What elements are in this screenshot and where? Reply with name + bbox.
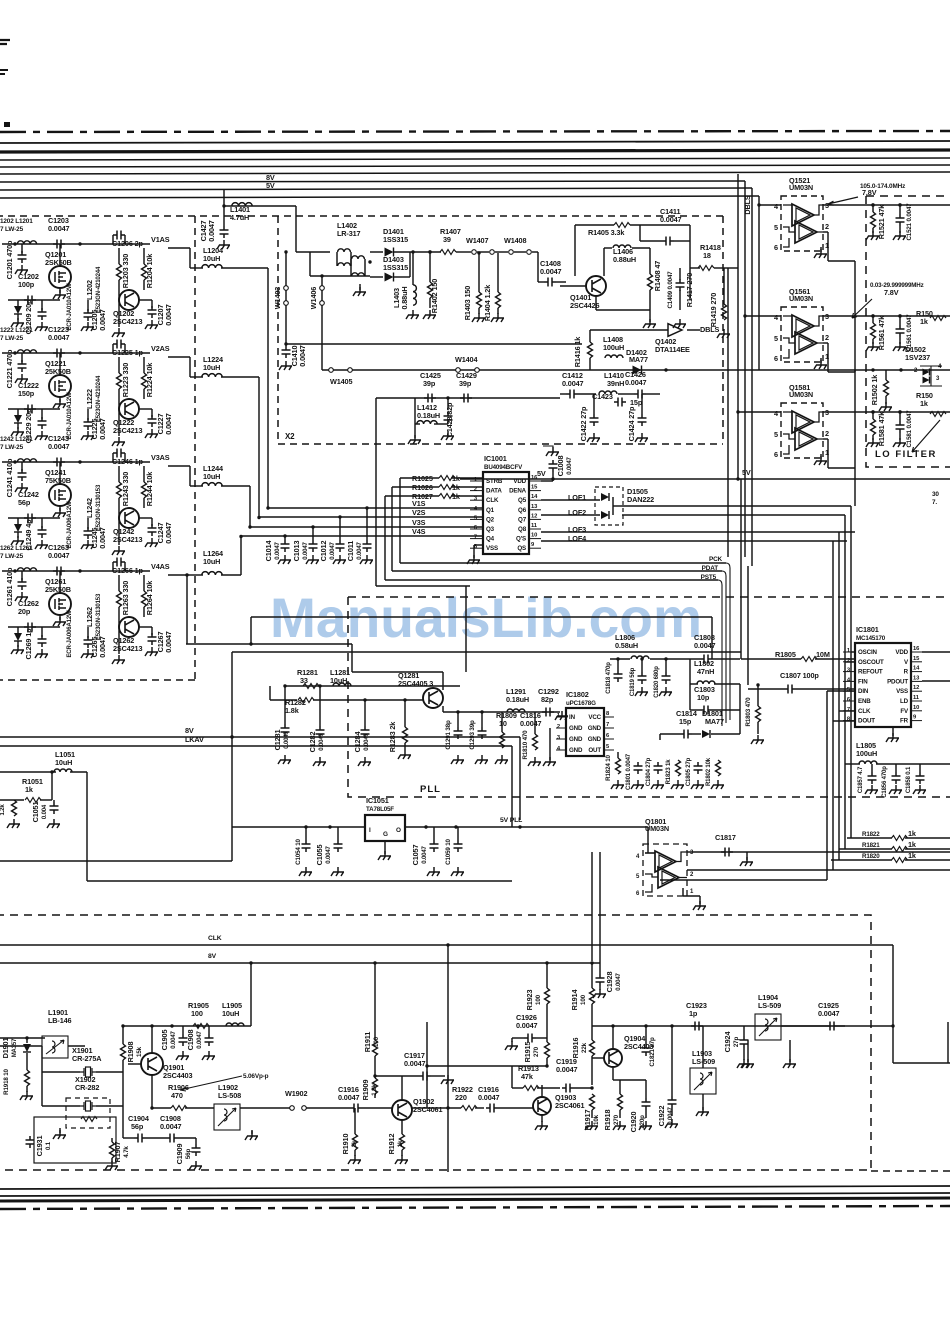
- svg-text:C1920: C1920: [629, 1112, 638, 1133]
- wire horizontal R1418 to bus: [727, 268, 729, 557]
- wire bottom bus line 3 (thick): [0, 1198, 950, 1201]
- svg-text:Q7: Q7: [518, 516, 527, 523]
- svg-text:12: 12: [531, 513, 537, 519]
- ground: [279, 361, 292, 370]
- svg-text:V4S: V4S: [412, 527, 426, 536]
- wire long horizontal through watermark: [251, 616, 712, 618]
- ground: [360, 555, 373, 564]
- diode left MA358: [14, 415, 22, 423]
- svg-text:5: 5: [606, 744, 610, 750]
- svg-text:R1802 10k: R1802 10k: [706, 757, 712, 786]
- wire 8V drop 1: [250, 963, 252, 1026]
- svg-text:10uH: 10uH: [203, 363, 220, 372]
- svg-text:GND: GND: [588, 725, 602, 732]
- svg-text:W1405: W1405: [330, 377, 352, 386]
- dashed box X2 left edge: [277, 216, 279, 444]
- svg-text:15k: 15k: [136, 1046, 143, 1057]
- svg-text:GND: GND: [569, 736, 583, 743]
- svg-text:0.0047: 0.0047: [616, 972, 622, 990]
- svg-text:VDD: VDD: [895, 649, 908, 656]
- transistor Q1401 2SC4426: [586, 276, 606, 296]
- wire LOF2 to bus: [622, 514, 845, 516]
- ground: [15, 483, 28, 492]
- svg-text:13: 13: [913, 675, 920, 681]
- ground under Q2: [112, 437, 125, 446]
- ground: [451, 867, 464, 876]
- svg-text:20p: 20p: [18, 607, 31, 616]
- svg-text:C1819 56p: C1819 56p: [630, 667, 636, 696]
- svg-text:LD: LD: [900, 698, 909, 705]
- svg-text:IC1001: IC1001: [484, 454, 507, 463]
- dashed box crystal: [66, 1098, 110, 1128]
- svg-text:Q'S: Q'S: [516, 536, 526, 543]
- mark left edge 2: [0, 70, 8, 74]
- svg-text:R: R: [904, 669, 909, 676]
- svg-text:C1856 470p: C1856 470p: [882, 766, 888, 798]
- grounds under L1805 row: [865, 785, 878, 794]
- wire row input: [2, 570, 150, 572]
- svg-text:Q6: Q6: [518, 507, 527, 514]
- svg-text:0.0047: 0.0047: [48, 224, 70, 233]
- svg-text:CR-282: CR-282: [75, 1083, 99, 1092]
- svg-text:14: 14: [531, 494, 538, 500]
- svg-text:0.0047: 0.0047: [562, 379, 584, 388]
- svg-text:2SC4405 3: 2SC4405 3: [398, 679, 433, 688]
- svg-text:E523GN-4210244: E523GN-4210244: [96, 266, 102, 313]
- svg-text:LKAV: LKAV: [185, 735, 204, 744]
- transistor Q1242 2SC4213: [119, 508, 139, 528]
- svg-text:DIN: DIN: [858, 688, 869, 695]
- svg-text:1222 L1221: 1222 L1221: [0, 327, 33, 334]
- ground: [495, 755, 508, 764]
- svg-text:14: 14: [913, 666, 920, 672]
- wire transformer leads: [309, 252, 311, 276]
- svg-text:C1011: C1011: [346, 541, 355, 561]
- svg-text:100uH: 100uH: [603, 343, 624, 352]
- svg-text:10p: 10p: [697, 693, 710, 702]
- wire V2AS: [168, 356, 190, 358]
- ground: [696, 1107, 709, 1116]
- svg-text:I: I: [369, 827, 371, 834]
- svg-text:R1263 330: R1263 330: [121, 581, 130, 615]
- svg-text:4: 4: [774, 313, 779, 322]
- svg-text:2: 2: [825, 429, 829, 438]
- svg-text:3: 3: [474, 496, 478, 502]
- svg-text:PDOUT: PDOUT: [887, 678, 908, 685]
- svg-text:C1424 27p: C1424 27p: [627, 406, 636, 441]
- svg-text:39nH: 39nH: [607, 379, 624, 388]
- svg-text:2SC4061: 2SC4061: [555, 1101, 584, 1110]
- ground: [11, 536, 24, 545]
- svg-text:R1521 47k: R1521 47k: [877, 204, 886, 239]
- wire C1425 row loop down: [375, 398, 377, 586]
- svg-text:100: 100: [535, 994, 542, 1005]
- svg-text:0.0047: 0.0047: [330, 541, 336, 559]
- wire top bus line 1: [0, 141, 950, 143]
- wire DATA loop down: [391, 487, 393, 571]
- svg-text:2: 2: [914, 368, 918, 374]
- svg-text:7.: 7.: [932, 499, 937, 506]
- svg-text:R1916: R1916: [571, 1038, 580, 1059]
- svg-text:R1803 470: R1803 470: [745, 697, 752, 727]
- svg-text:0.0047: 0.0047: [98, 527, 107, 549]
- svg-text:6: 6: [606, 733, 610, 739]
- wire Q1521 pin2 out: [823, 231, 828, 233]
- svg-text:2SC4213: 2SC4213: [113, 317, 142, 326]
- ground: [866, 231, 879, 240]
- svg-text:18: 18: [703, 251, 711, 260]
- svg-text:LR-317: LR-317: [337, 229, 361, 238]
- svg-text:C1928: C1928: [605, 972, 614, 993]
- svg-text:FV: FV: [900, 708, 909, 715]
- svg-text:E523GN-4210244: E523GN-4210244: [96, 375, 102, 422]
- svg-text:9: 9: [531, 542, 535, 548]
- ground: [893, 231, 906, 240]
- svg-text:0.0047: 0.0047: [668, 1106, 674, 1124]
- wire Q1521 pin4: [759, 204, 781, 206]
- ground: [613, 1121, 626, 1130]
- wire DIN stub: [827, 690, 855, 692]
- mark left edge 1: [0, 40, 10, 44]
- svg-text:C1012: C1012: [319, 541, 328, 562]
- ground: [15, 374, 28, 383]
- svg-text:1: 1: [690, 889, 694, 895]
- ground: [202, 1051, 215, 1060]
- wire IC1051 input: [232, 826, 365, 828]
- ground: [11, 427, 24, 436]
- svg-text:BU4094BCFV: BU4094BCFV: [484, 464, 523, 471]
- ground: [15, 265, 28, 274]
- grounds L1904: [741, 1059, 754, 1068]
- wire row input: [2, 352, 150, 354]
- dashed line bottom right: [871, 1170, 950, 1172]
- ground: [313, 757, 326, 766]
- svg-text:100: 100: [580, 994, 587, 1005]
- svg-text:C1857 4.7: C1857 4.7: [858, 766, 864, 793]
- svg-text:0.0047: 0.0047: [197, 1030, 203, 1048]
- svg-text:8: 8: [606, 711, 610, 717]
- svg-text:ECR-JA010A12W: ECR-JA010A12W: [67, 283, 73, 331]
- wire 8V drop 2: [374, 963, 376, 1040]
- svg-text:2SC4213: 2SC4213: [113, 644, 142, 653]
- svg-text:39p: 39p: [423, 379, 436, 388]
- svg-text:1k: 1k: [908, 840, 917, 849]
- svg-text:Q5: Q5: [518, 497, 527, 504]
- svg-text:C1054 10: C1054 10: [295, 838, 302, 864]
- svg-text:R1419 270: R1419 270: [709, 293, 718, 327]
- ground: [406, 310, 419, 319]
- svg-text:0.0047: 0.0047: [98, 418, 107, 440]
- svg-text:E523GN-3130153: E523GN-3130153: [96, 593, 102, 640]
- ground under FET: [53, 617, 66, 626]
- wire vertical bus 3: [751, 188, 753, 566]
- wire 5V feed: [224, 205, 296, 207]
- svg-text:0.0047: 0.0047: [422, 845, 428, 863]
- svg-text:R1912: R1912: [387, 1134, 396, 1155]
- svg-text:0.0047: 0.0047: [660, 215, 682, 224]
- svg-text:9: 9: [913, 715, 917, 721]
- ground: [528, 757, 541, 766]
- wire to bottom: [231, 737, 233, 861]
- ground: [475, 755, 488, 764]
- svg-text:R1416 1k: R1416 1k: [573, 336, 582, 368]
- svg-text:ECR-JA006A12W: ECR-JA006A12W: [67, 610, 73, 658]
- svg-text:UM03N: UM03N: [789, 390, 813, 399]
- ground Q1581 pin1: [820, 454, 822, 459]
- svg-text:L1222: L1222: [85, 389, 94, 409]
- svg-text:DAN222: DAN222: [627, 495, 654, 504]
- svg-text:10M: 10M: [816, 650, 830, 659]
- wire row input: [2, 243, 150, 245]
- svg-text:V1AS: V1AS: [151, 235, 170, 244]
- svg-text:3: 3: [690, 850, 694, 856]
- svg-text:1.8k: 1.8k: [285, 706, 300, 715]
- svg-text:1k: 1k: [908, 851, 917, 860]
- svg-text:CLK: CLK: [858, 708, 871, 715]
- ground: [35, 322, 48, 331]
- svg-text:R1910: R1910: [341, 1134, 350, 1155]
- ground: [585, 1121, 598, 1130]
- svg-text:G: G: [383, 831, 388, 838]
- ground: [395, 1155, 408, 1164]
- svg-text:56p: 56p: [18, 498, 31, 507]
- svg-text:6: 6: [474, 525, 478, 531]
- svg-text:0.0047: 0.0047: [98, 636, 107, 658]
- svg-text:GND: GND: [569, 747, 583, 754]
- wire osc output rail: [592, 1025, 845, 1027]
- svg-text:470: 470: [171, 1091, 183, 1100]
- svg-text:CLK: CLK: [208, 935, 222, 942]
- svg-text:R1203 330: R1203 330: [121, 254, 130, 288]
- svg-text:5: 5: [636, 874, 640, 880]
- ground: [189, 1161, 202, 1170]
- wire: [376, 397, 560, 399]
- svg-text:5V PLL: 5V PLL: [500, 817, 522, 824]
- svg-text:CR-275A: CR-275A: [72, 1054, 102, 1063]
- svg-text:C1858 0.1: C1858 0.1: [906, 766, 912, 793]
- wire CLK loop down: [384, 496, 386, 580]
- svg-text:R1223 330: R1223 330: [121, 363, 130, 397]
- svg-text:2SC4403: 2SC4403: [163, 1071, 192, 1080]
- ground: [81, 431, 94, 440]
- svg-text:ECR-JA010A12W: ECR-JA010A12W: [67, 392, 73, 440]
- wire second horizontal to IC1801 oscin: [232, 651, 741, 653]
- ground: [331, 867, 344, 876]
- dashed box left RF block right edge: [194, 216, 196, 680]
- svg-text:C1014: C1014: [264, 540, 273, 562]
- svg-text:R1404 1.2k: R1404 1.2k: [483, 284, 492, 321]
- svg-text:R1502 1k: R1502 1k: [870, 374, 879, 406]
- svg-text:R1264 10k: R1264 10k: [145, 580, 154, 615]
- ground: [717, 329, 730, 338]
- svg-text:10k: 10k: [593, 1114, 600, 1125]
- svg-text:27p: 27p: [733, 1037, 740, 1048]
- svg-text:5V: 5V: [266, 181, 275, 190]
- ground: [20, 1091, 33, 1100]
- wire bottom bus line 2: [0, 1193, 950, 1196]
- svg-text:0.58uH: 0.58uH: [615, 641, 638, 650]
- ground: [408, 435, 421, 444]
- svg-text:OSCIN: OSCIN: [858, 649, 878, 656]
- wire Q1581 pin3 out: [823, 411, 950, 413]
- svg-text:R1224 10k: R1224 10k: [145, 362, 154, 397]
- svg-text:7.8V: 7.8V: [862, 188, 877, 197]
- svg-text:100: 100: [191, 1009, 203, 1018]
- svg-text:LO FILTER: LO FILTER: [875, 449, 937, 460]
- dashed box bottom oscillator section: [0, 915, 871, 1170]
- svg-text:2SC4213: 2SC4213: [113, 426, 142, 435]
- svg-text:11: 11: [531, 523, 538, 529]
- svg-text:1p: 1p: [689, 1009, 698, 1018]
- svg-text:0.0047: 0.0047: [357, 541, 363, 559]
- svg-text:W1902: W1902: [285, 1089, 307, 1098]
- svg-text:D1901: D1901: [1, 1038, 10, 1059]
- ground: [893, 438, 906, 447]
- svg-text:6: 6: [774, 243, 778, 252]
- svg-text:1202 L1201: 1202 L1201: [0, 218, 33, 225]
- svg-text:0.0047: 0.0047: [338, 1093, 360, 1102]
- svg-text:39: 39: [443, 235, 451, 244]
- svg-text:0.0047: 0.0047: [326, 845, 332, 863]
- svg-text:4: 4: [557, 746, 561, 752]
- svg-text:V4AS: V4AS: [151, 562, 170, 571]
- svg-text:4: 4: [938, 364, 942, 370]
- svg-text:0.18uH: 0.18uH: [417, 411, 440, 420]
- svg-text:R1915: R1915: [523, 1042, 532, 1063]
- svg-text:Q1: Q1: [486, 507, 495, 514]
- svg-text:IC1051: IC1051: [366, 796, 389, 805]
- svg-text:C1922: C1922: [657, 1106, 666, 1127]
- svg-text:7 LW-25: 7 LW-25: [0, 444, 24, 451]
- svg-text:DENA: DENA: [509, 488, 527, 495]
- svg-text:C1807 100p: C1807 100p: [780, 671, 819, 680]
- svg-text:7 LW-25: 7 LW-25: [0, 226, 24, 233]
- svg-text:0.0047: 0.0047: [625, 378, 647, 387]
- wire bottom bus line 1: [0, 1186, 950, 1189]
- svg-text:13: 13: [531, 504, 538, 510]
- svg-text:R1918: R1918: [603, 1110, 612, 1131]
- wire LOF3 to bus: [838, 532, 840, 711]
- svg-text:39p: 39p: [459, 379, 472, 388]
- svg-text:REFOUT: REFOUT: [858, 669, 883, 676]
- svg-text:15: 15: [531, 485, 538, 491]
- svg-text:V3AS: V3AS: [151, 453, 170, 462]
- svg-text:R1923: R1923: [525, 990, 534, 1011]
- ground: [893, 342, 906, 351]
- svg-text:PCK: PCK: [709, 556, 723, 563]
- svg-text:C1225 1p: C1225 1p: [112, 348, 144, 357]
- svg-text:0.1: 0.1: [46, 1141, 52, 1150]
- grounds under RC row: [611, 780, 624, 789]
- svg-text:1SS315: 1SS315: [383, 235, 408, 244]
- wire DIN ENB CLK DOUT verticals: [850, 652, 852, 838]
- wire STRB loop down: [399, 478, 401, 563]
- arrow to 0.03MHz: [852, 299, 872, 318]
- svg-text:0.0047: 0.0047: [404, 1059, 426, 1068]
- wire PDAT vertical: [722, 571, 726, 723]
- svg-text:8V: 8V: [208, 953, 217, 960]
- wire V4AS: [168, 574, 190, 576]
- svg-text:0.0047: 0.0047: [160, 1122, 182, 1131]
- svg-text:7.8V: 7.8V: [884, 288, 899, 297]
- ground: [866, 438, 879, 447]
- svg-text:V3S: V3S: [412, 518, 426, 527]
- svg-text:R1408 47: R1408 47: [653, 261, 662, 292]
- svg-text:10: 10: [499, 719, 507, 728]
- wire osc top rail: [123, 1025, 251, 1027]
- svg-text:10uH: 10uH: [55, 758, 72, 767]
- ground: [635, 687, 648, 696]
- svg-text:C1931: C1931: [35, 1136, 44, 1157]
- svg-text:C1924: C1924: [723, 1031, 732, 1053]
- wire VDD right: [922, 651, 950, 653]
- ground under FET: [53, 290, 66, 299]
- svg-text:C1206 2p: C1206 2p: [112, 239, 144, 248]
- svg-text:C1051: C1051: [31, 802, 40, 823]
- ground under FET: [53, 399, 66, 408]
- wire PCK vertical: [726, 563, 730, 720]
- svg-text:OUT: OUT: [588, 747, 601, 754]
- svg-text:W1408: W1408: [504, 236, 526, 245]
- svg-text:15p: 15p: [679, 717, 692, 726]
- svg-text:CLK: CLK: [486, 497, 499, 504]
- ground: [245, 1131, 258, 1140]
- svg-text:DATA: DATA: [486, 488, 502, 495]
- dashed box left RF block + X2 shared top edge: [0, 215, 723, 217]
- ground under Q2: [112, 328, 125, 337]
- ground IC1001 VSS: [467, 555, 480, 564]
- svg-text:V2S: V2S: [412, 508, 426, 517]
- ground: [176, 1051, 189, 1060]
- svg-text:C1409 0.0047: C1409 0.0047: [667, 271, 674, 309]
- svg-text:1242 L1241: 1242 L1241: [0, 436, 33, 443]
- svg-text:8V: 8V: [185, 726, 194, 735]
- svg-text:0.0047: 0.0047: [48, 333, 70, 342]
- svg-text:C1805 27p: C1805 27p: [686, 757, 692, 786]
- ground Q1801: [693, 901, 706, 910]
- wire V3AS: [168, 465, 190, 467]
- buffer Q1402 DTA114EE: [668, 324, 682, 337]
- svg-text:0.0047: 0.0047: [567, 456, 573, 474]
- svg-text:LS-509: LS-509: [758, 1001, 781, 1010]
- svg-text:6: 6: [774, 354, 778, 363]
- svg-text:0.004: 0.004: [42, 804, 48, 819]
- svg-text:LS-508: LS-508: [218, 1091, 241, 1100]
- dashed box X2 right edge: [722, 216, 724, 444]
- svg-text:R1204 10k: R1204 10k: [145, 253, 154, 288]
- svg-text:1k: 1k: [908, 829, 917, 838]
- svg-text:R1823 1k: R1823 1k: [666, 759, 672, 785]
- svg-text:UM03N: UM03N: [789, 294, 813, 303]
- wire top bus line 4: [0, 165, 950, 167]
- svg-text:C1422 27p: C1422 27p: [579, 406, 588, 441]
- svg-text:W1407: W1407: [466, 236, 488, 245]
- ground: [145, 429, 158, 438]
- ground IC1801: [886, 733, 899, 742]
- wire lower X2 with W1405 W1404: [322, 369, 950, 371]
- svg-text:10uH: 10uH: [222, 1009, 239, 1018]
- svg-text:2: 2: [847, 658, 850, 664]
- svg-text:UM03N: UM03N: [789, 183, 813, 192]
- wire output right edge: [947, 1022, 949, 1063]
- ground: [145, 538, 158, 547]
- svg-text:270: 270: [613, 1114, 620, 1125]
- svg-text:1k: 1k: [25, 785, 34, 794]
- svg-text:R1824 10: R1824 10: [605, 754, 612, 780]
- svg-text:R1805: R1805: [775, 650, 796, 659]
- svg-text:2: 2: [825, 333, 829, 342]
- svg-text:5.06Vp-p: 5.06Vp-p: [243, 1073, 269, 1080]
